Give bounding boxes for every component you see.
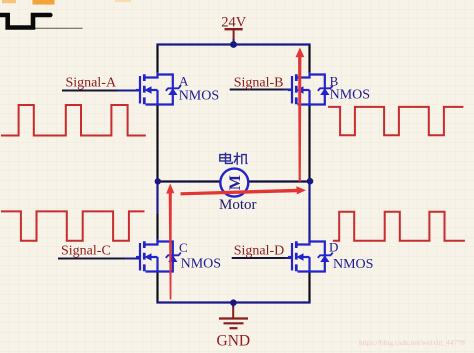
svg-text:NMOS: NMOS <box>333 257 373 272</box>
svg-text:NMOS: NMOS <box>179 89 219 104</box>
svg-text:M: M <box>227 175 244 190</box>
svg-text:GND: GND <box>217 333 251 350</box>
svg-text:D: D <box>329 240 338 255</box>
svg-text:C: C <box>179 240 188 255</box>
svg-text:24V: 24V <box>221 15 247 31</box>
svg-text:A: A <box>179 74 189 89</box>
svg-text:Motor: Motor <box>219 197 257 213</box>
svg-text:Signal-B: Signal-B <box>234 76 284 91</box>
svg-text:Signal-A: Signal-A <box>66 76 117 91</box>
svg-text:B: B <box>330 74 339 89</box>
svg-text:https://blog.csdn.net/weixin_4: https://blog.csdn.net/weixin_44778 <box>359 338 465 347</box>
svg-text:NMOS: NMOS <box>181 257 221 272</box>
svg-text:Signal-D: Signal-D <box>234 244 285 259</box>
svg-text:NMOS: NMOS <box>330 88 370 103</box>
svg-text:Signal-C: Signal-C <box>61 244 111 259</box>
